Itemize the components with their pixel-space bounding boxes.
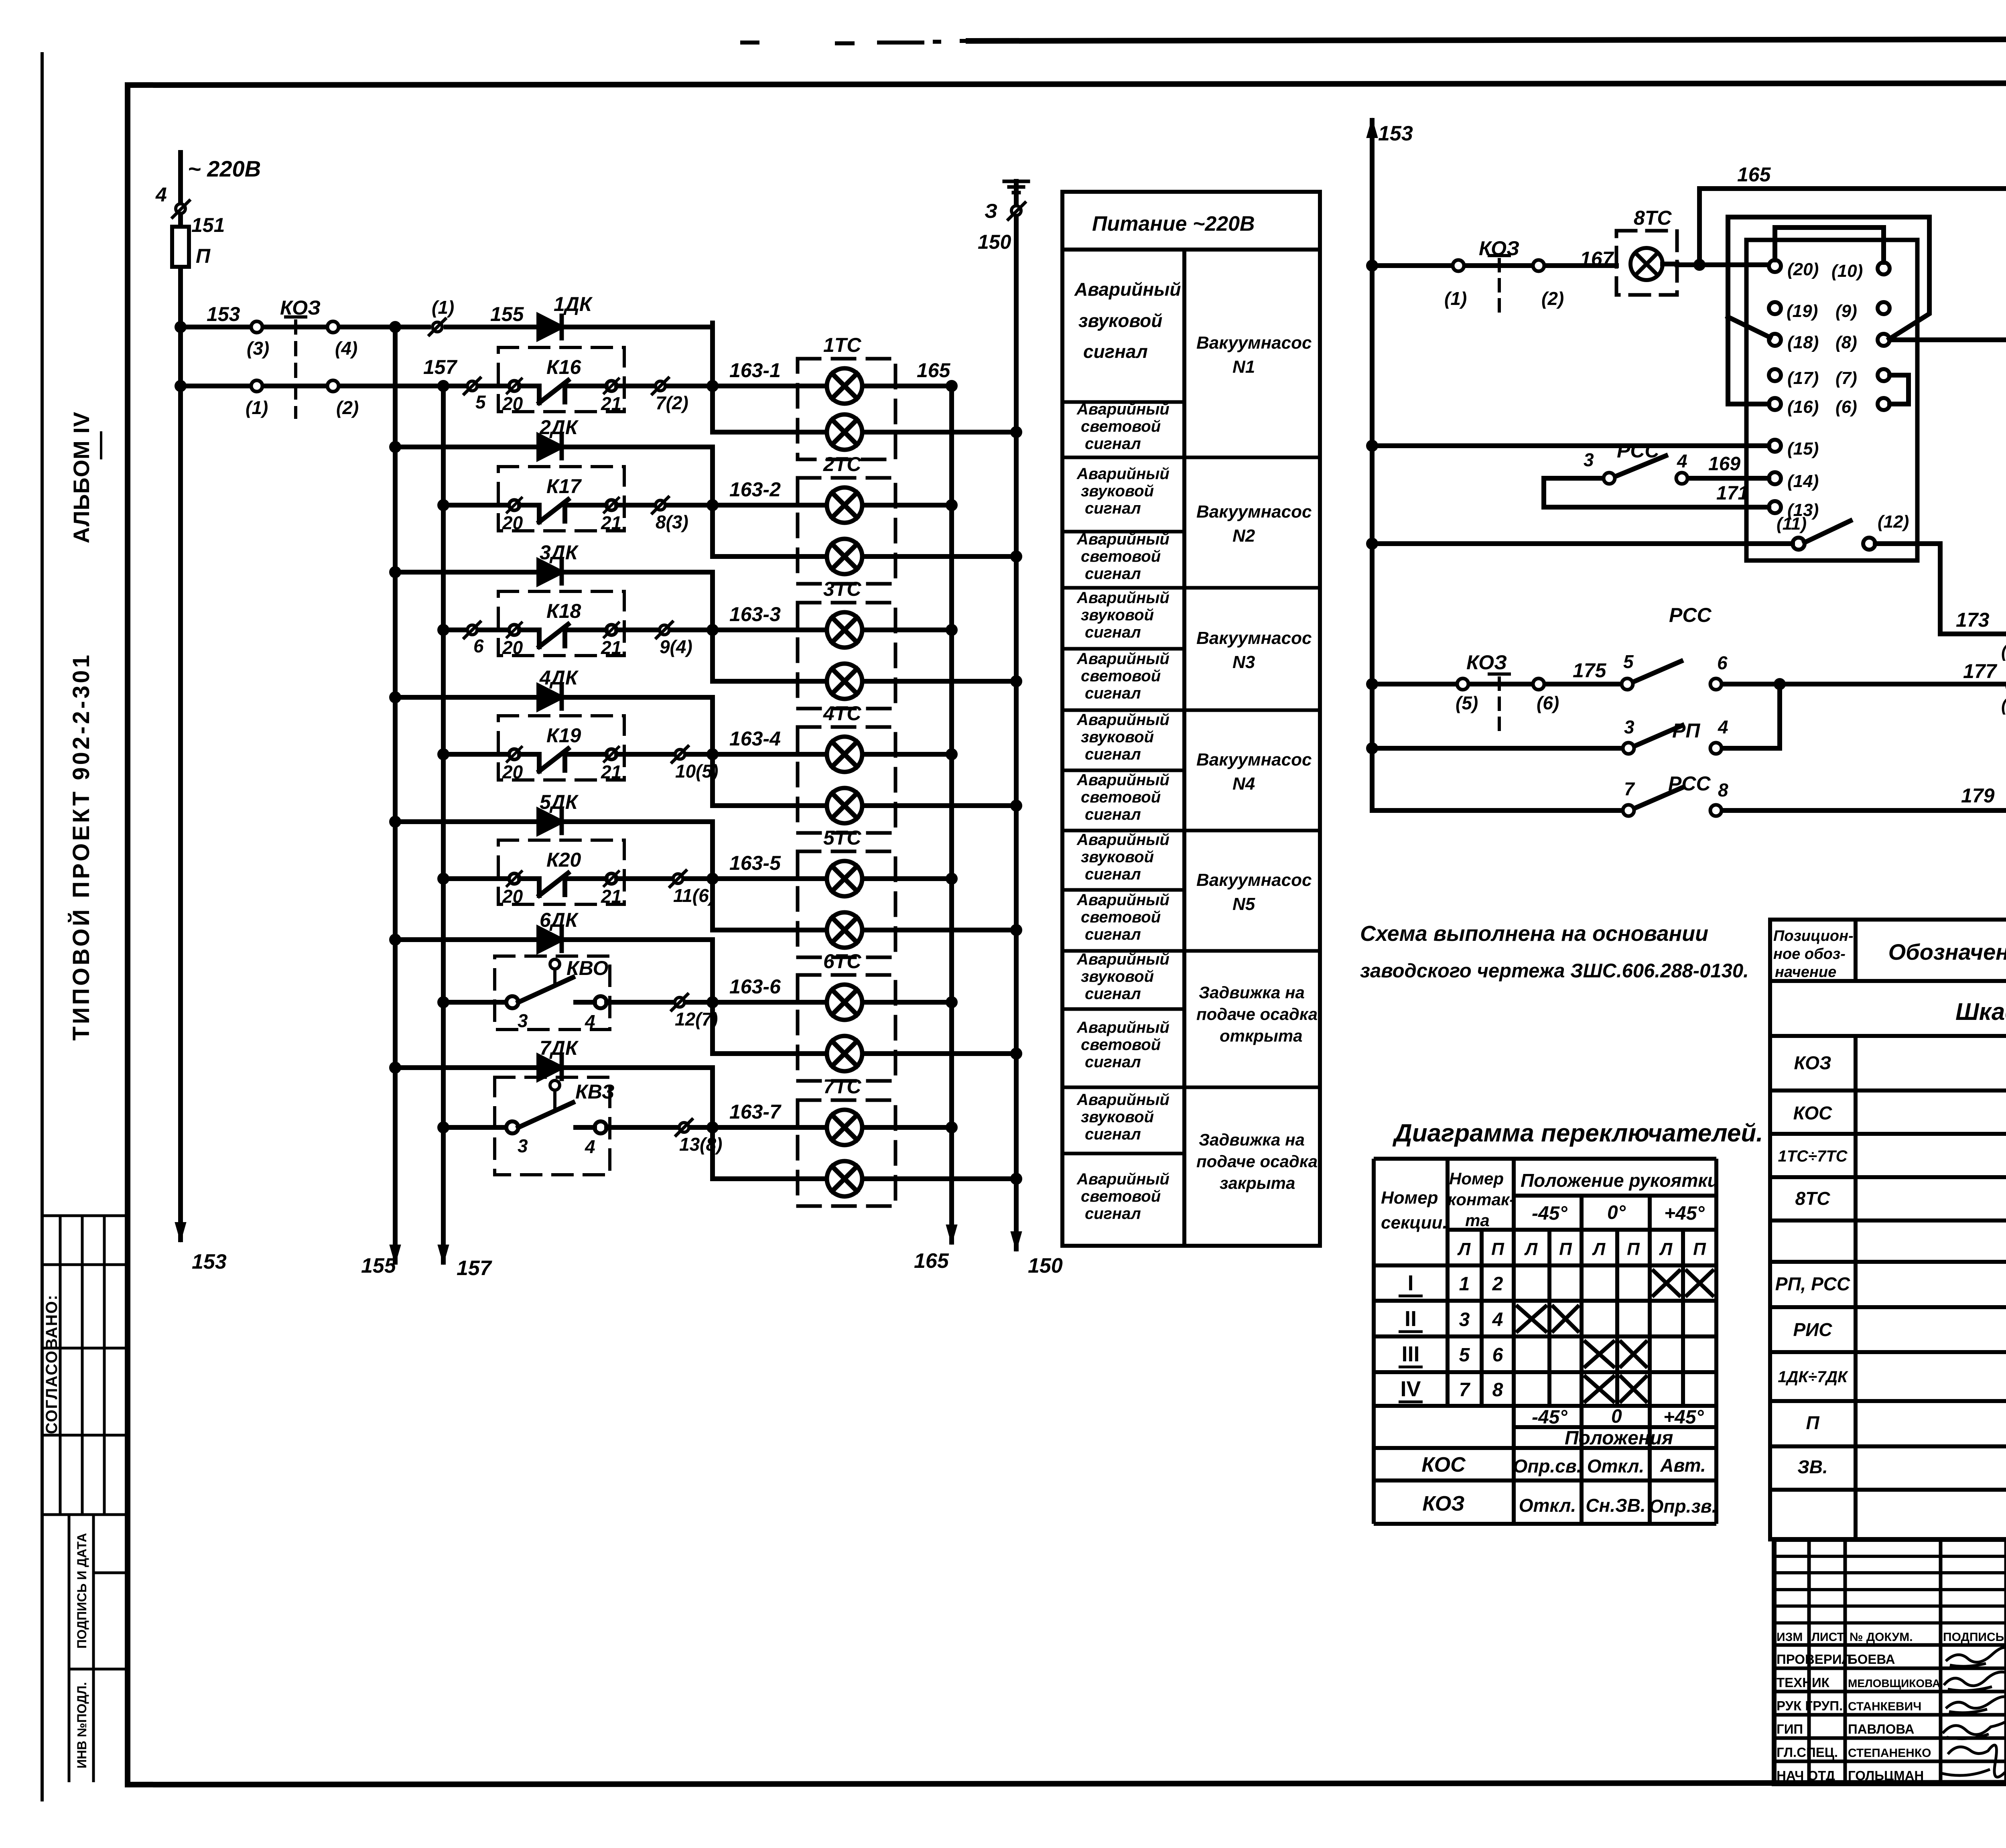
svg-text:N1: N1 — [1232, 357, 1255, 377]
diode 3ДК — [539, 561, 561, 583]
svg-text:РИС: РИС — [1793, 1319, 1833, 1340]
svg-text:(16): (16) — [1787, 397, 1819, 417]
svg-text:Номер: Номер — [1449, 1169, 1504, 1188]
svg-text:звуковой: звуковой — [1081, 728, 1154, 746]
pin (20) — [1769, 260, 1781, 272]
svg-text:163-3: 163-3 — [729, 603, 781, 625]
node on bus 157 — [440, 1124, 447, 1131]
contact circle (3) — [251, 321, 262, 333]
svg-text:Аварийный: Аварийный — [1076, 1019, 1169, 1036]
contact circle 4 of РП — [1710, 743, 1722, 754]
svg-text:153: 153 — [192, 1250, 227, 1273]
svg-text:12(7): 12(7) — [675, 1009, 718, 1030]
branch 7: diode 7ДК, contact КВЗ, lamp 7ТС — [392, 1056, 1020, 1206]
svg-text:звуковой: звуковой — [1081, 1108, 1154, 1126]
svg-text:(20): (20) — [1787, 260, 1819, 279]
svg-text:Аварийный: Аварийный — [1076, 465, 1169, 483]
node — [948, 626, 955, 634]
relay contact box К20 (dashed) — [498, 840, 624, 904]
node on bus 157 — [440, 999, 447, 1006]
contact circle (4) — [327, 321, 339, 333]
plug contact marker 8(3) — [656, 500, 665, 510]
svg-text:173: 173 — [1956, 609, 1990, 631]
contact X on rail 150 — [1011, 206, 1021, 215]
svg-text:6ТС: 6ТС — [823, 950, 861, 973]
switch blade КВЗ — [518, 1103, 595, 1127]
relay contact box К19 (dashed) — [498, 716, 624, 780]
svg-text:3ТС: 3ТС — [823, 578, 861, 600]
svg-text:165: 165 — [914, 1249, 949, 1273]
diode 6ДК — [539, 928, 561, 951]
svg-text:КОЗ: КОЗ — [1466, 651, 1507, 674]
contact circle 3 — [506, 1121, 518, 1133]
svg-text:Задвижка на: Задвижка на — [1199, 983, 1305, 1002]
wire: riser joining diode row to lamp rows — [710, 822, 715, 930]
svg-text:звуковой: звуковой — [1081, 482, 1154, 500]
lamp 8ТС — [1630, 248, 1663, 280]
svg-text:ИНВ №ПОДЛ.: ИНВ №ПОДЛ. — [75, 1682, 89, 1768]
contact circle 7 — [1623, 805, 1634, 816]
wire: diode row 5ДК — [395, 819, 713, 824]
contact circle (2) — [1533, 260, 1544, 271]
svg-text:П: П — [1491, 1239, 1504, 1259]
svg-text:157: 157 — [457, 1257, 492, 1280]
svg-text:Аварийный: Аварийный — [1076, 400, 1169, 418]
svg-text:5: 5 — [475, 392, 486, 412]
plug contact marker 10(5) — [675, 749, 685, 759]
svg-text:(12): (12) — [1878, 512, 1909, 532]
node on bus 155 — [392, 936, 399, 943]
svg-text:ИЗМ: ИЗМ — [1777, 1631, 1803, 1644]
svg-text:Номер: Номер — [1381, 1188, 1438, 1208]
svg-text:(17): (17) — [1787, 368, 1819, 388]
lamp 3ТС top — [827, 612, 862, 648]
svg-text:2: 2 — [1492, 1273, 1503, 1295]
svg-text:световой: световой — [1081, 418, 1161, 435]
svg-text:10(5): 10(5) — [675, 761, 718, 782]
svg-text:III: III — [1401, 1342, 1419, 1366]
branch 5: diode 5ДК, contact К20, lamp 5ТС — [392, 810, 1020, 957]
X marks row I (+45) — [1652, 1269, 1681, 1297]
svg-text:Вакуумнасос: Вакуумнасос — [1196, 628, 1312, 648]
svg-text:4: 4 — [585, 1136, 595, 1157]
wire: diagonal pin18 — [1728, 317, 1770, 337]
wire: rail 150 (vertical x=2551) — [1014, 181, 1019, 1249]
diode 7ДК — [539, 1056, 561, 1079]
svg-text:155: 155 — [490, 303, 524, 325]
svg-text:сигнал: сигнал — [1085, 684, 1141, 702]
svg-text:(1): (1) — [1444, 288, 1467, 309]
wire: contact row — [443, 628, 506, 632]
svg-text:8: 8 — [1718, 780, 1728, 800]
svg-text:сигнал: сигнал — [1085, 1205, 1141, 1223]
svg-text:Откл.: Откл. — [1587, 1456, 1645, 1476]
wire: riser joining diode row to lamp rows — [710, 940, 715, 1054]
pin (14) — [1769, 472, 1781, 484]
svg-text:N5: N5 — [1232, 894, 1255, 914]
fuse П (151) — [172, 227, 189, 267]
plug contact marker 9(4) — [660, 625, 669, 635]
svg-text:(3): (3) — [247, 338, 269, 359]
contact blade 11-12 — [1805, 521, 1850, 542]
wire: lamp bottom row — [713, 1176, 1016, 1181]
contact circle 5 — [1622, 678, 1633, 690]
node — [1368, 540, 1376, 547]
svg-text:Положение рукоятки: Положение рукоятки — [1521, 1170, 1719, 1191]
svg-text:163-7: 163-7 — [729, 1101, 782, 1123]
contact circle (1) — [1453, 260, 1464, 271]
branch 3: diode 3ДК, contact К18, lamp 3ТС — [392, 561, 1020, 709]
svg-text:КОЗ: КОЗ — [1422, 1492, 1464, 1515]
node — [709, 1124, 716, 1131]
svg-text:КОЗ: КОЗ — [1479, 237, 1519, 260]
svg-text:(14): (14) — [1787, 471, 1819, 491]
node — [948, 382, 955, 390]
svg-text:(6): (6) — [1835, 397, 1857, 417]
pin (11) — [1793, 538, 1805, 550]
svg-text:ТЕХНИК: ТЕХНИК — [1777, 1675, 1830, 1690]
svg-text:КОС: КОС — [1793, 1103, 1832, 1123]
svg-text:К19: К19 — [546, 724, 581, 747]
svg-text:~ 220В: ~ 220В — [188, 156, 261, 181]
node on bus 155 — [392, 1064, 399, 1071]
svg-text:I: I — [1407, 1271, 1413, 1295]
svg-text:Задвижка на: Задвижка на — [1199, 1130, 1305, 1149]
svg-text:157: 157 — [423, 356, 458, 378]
contact circle 20 — [509, 873, 520, 884]
lamp 5ТС bottom — [827, 912, 862, 948]
contact circle 4 — [595, 1121, 607, 1133]
signal lamp box 4ТС (dashed) — [798, 727, 895, 833]
contact circle 21 — [606, 873, 617, 884]
svg-text:Откл.: Откл. — [1519, 1495, 1576, 1516]
svg-text:4: 4 — [1492, 1309, 1503, 1330]
pin (17) — [1769, 369, 1781, 381]
wire: lamp bottom row — [713, 430, 1016, 435]
svg-text:(19): (19) — [1787, 301, 1818, 321]
svg-text:Л: Л — [1592, 1239, 1606, 1259]
pin (8) — [1878, 334, 1890, 346]
wire: lamp top row to rail 165 — [862, 1000, 952, 1005]
wire to plug contact — [617, 503, 827, 508]
svg-text:3ДК: 3ДК — [540, 541, 579, 564]
svg-text:Л: Л — [1524, 1239, 1538, 1259]
svg-text:(1): (1) — [246, 397, 268, 418]
node on bus 157 — [440, 875, 447, 882]
node — [1013, 926, 1020, 934]
svg-text:179: 179 — [1961, 784, 1995, 807]
svg-text:20: 20 — [502, 637, 523, 658]
underline of IV — [100, 431, 102, 459]
plug contact marker 11(6) — [673, 874, 683, 883]
lamp 4ТС bottom — [827, 788, 862, 823]
svg-text:сигнал: сигнал — [1085, 745, 1141, 763]
svg-text:8: 8 — [1492, 1379, 1503, 1401]
svg-text:21: 21 — [601, 512, 621, 533]
contact circle 20 — [509, 749, 520, 760]
svg-text:4: 4 — [1718, 717, 1728, 737]
ground symbol (net 150) — [1004, 181, 1028, 193]
svg-text:(15): (15) — [1787, 439, 1819, 459]
node — [948, 875, 955, 882]
contact circle (6) — [1533, 678, 1544, 690]
svg-text:20: 20 — [502, 886, 523, 907]
wire: riser joining diode row to lamp rows — [710, 1068, 715, 1179]
svg-text:КВЗ: КВЗ — [575, 1080, 615, 1103]
svg-text:4: 4 — [1677, 451, 1687, 471]
svg-text:Опр.св.: Опр.св. — [1513, 1456, 1582, 1476]
X marks row IV (0) — [1584, 1375, 1615, 1403]
node on bus 157 — [440, 626, 447, 634]
svg-text:Аварийный: Аварийный — [1076, 589, 1169, 607]
contact circle (2) — [327, 380, 339, 392]
limit switch box КВО (dashed) — [495, 956, 610, 1030]
svg-text:153: 153 — [1378, 122, 1413, 145]
svg-text:начение: начение — [1775, 964, 1836, 981]
node — [1013, 1175, 1020, 1182]
lamp 3ТС bottom — [827, 664, 862, 699]
svg-text:Позицион-: Позицион- — [1773, 928, 1854, 944]
wire: supply bus 153 (vertical, x=450) — [178, 152, 183, 1240]
svg-text:ПАВЛОВА: ПАВЛОВА — [1848, 1722, 1914, 1736]
arrow rail 150 bottom — [1011, 1232, 1021, 1249]
svg-text:Опр.зв.: Опр.зв. — [1649, 1496, 1717, 1517]
wire: diode row 2ДК — [395, 445, 713, 449]
svg-text:закрыта: закрыта — [1220, 1174, 1295, 1192]
svg-text:сигнал: сигнал — [1085, 623, 1141, 641]
svg-text:Аварийный: Аварийный — [1076, 711, 1169, 729]
svg-text:6: 6 — [473, 636, 484, 656]
wire to plug contact — [617, 752, 827, 757]
svg-text:Вакуумнасос: Вакуумнасос — [1196, 502, 1312, 522]
switch blade КВО — [518, 977, 595, 1002]
node on bus 155 — [392, 694, 399, 701]
branch 4: diode 4ДК, contact К19, lamp 4ТС — [392, 686, 1020, 833]
wire: lamp top row to rail 165 — [862, 503, 952, 508]
svg-text:П: П — [1693, 1239, 1706, 1259]
svg-text:СТЕПАНЕНКО: СТЕПАНЕНКО — [1848, 1746, 1931, 1760]
node — [1013, 1050, 1020, 1057]
node — [709, 875, 716, 882]
svg-text:7ДК: 7ДК — [540, 1037, 579, 1059]
svg-text:163-1: 163-1 — [729, 359, 781, 382]
wire: pin8 output to rail 150 — [1890, 337, 2006, 342]
svg-text:175: 175 — [1573, 659, 1607, 682]
svg-text:Вакуумнасос: Вакуумнасос — [1196, 870, 1312, 890]
svg-text:П: П — [1559, 1239, 1572, 1259]
svg-text:КОС: КОС — [1421, 1453, 1466, 1476]
wire: lamp top row to rail 165 — [862, 628, 952, 632]
svg-text:3: 3 — [518, 1135, 528, 1156]
contact circle 4 — [595, 996, 607, 1008]
contact circle 20 — [509, 625, 520, 635]
pin (10) — [1878, 262, 1890, 274]
node — [709, 382, 716, 390]
wire: lamp bottom row — [713, 928, 1016, 932]
lamp 5ТС top — [827, 861, 862, 896]
contact blade К17 — [520, 500, 606, 522]
svg-text:6: 6 — [1492, 1344, 1503, 1366]
svg-text:Аварийный: Аварийный — [1076, 831, 1169, 849]
svg-text:П: П — [1806, 1412, 1819, 1433]
switch КОЗ dashed link — [1489, 672, 1509, 676]
svg-text:8ТС: 8ТС — [1634, 207, 1672, 229]
wire: row КОЗ 5-6 net 175/177 — [1372, 661, 2006, 684]
svg-text:155: 155 — [361, 1254, 396, 1277]
svg-text:3: 3 — [518, 1010, 528, 1031]
branch 2: diode 2ДК, contact К17, lamp 2ТС — [392, 436, 1020, 584]
wire: pin12 riser to РП coil row — [1875, 544, 2006, 634]
svg-text:21: 21 — [601, 637, 621, 658]
arrow bus 157 bottom — [439, 1245, 448, 1262]
svg-text:163-4: 163-4 — [729, 727, 781, 750]
svg-text:(9): (9) — [1835, 301, 1857, 321]
svg-text:Обозначение: Обозначение — [1888, 939, 2006, 965]
wire: row 157 (to КОЗ contact 1-2) — [181, 384, 467, 388]
lamp box 8ТС (dashed) — [1616, 231, 1677, 295]
svg-text:4: 4 — [155, 183, 167, 206]
svg-text:(5): (5) — [1456, 692, 1478, 713]
wire: contact row — [443, 1125, 506, 1130]
wire: rail 153 right (x=3420) — [1370, 120, 1375, 810]
lamp 6ТС top — [827, 985, 862, 1020]
svg-text:ЛИСТ: ЛИСТ — [1811, 1631, 1844, 1644]
arrow bus 155 bottom — [390, 1245, 400, 1262]
svg-text:(6): (6) — [1537, 692, 1559, 713]
wire to plug contact — [617, 876, 827, 881]
node — [1368, 680, 1376, 688]
wire to plug contact — [617, 384, 827, 388]
diode 5ДК — [539, 810, 561, 833]
svg-text:8ТС: 8ТС — [1795, 1188, 1831, 1209]
svg-text:Вакуумнасос: Вакуумнасос — [1196, 333, 1312, 353]
svg-text:(18): (18) — [1787, 333, 1819, 352]
svg-text:167: 167 — [1580, 248, 1614, 270]
node — [709, 502, 716, 509]
diode 1ДК — [539, 316, 561, 338]
node on bus 155 — [392, 818, 399, 825]
wire: lamp 8ТС to pin 20 — [1663, 264, 1769, 265]
svg-text:13(8): 13(8) — [679, 1134, 722, 1155]
contact X at top of bus — [176, 204, 185, 213]
pin (6) — [1878, 398, 1890, 410]
X marks row II (-45) — [1516, 1305, 1547, 1332]
contact circle 21 — [606, 500, 617, 510]
wire: row РП contact 3-4 — [1372, 684, 1780, 748]
svg-text:Аварийный: Аварийный — [1076, 650, 1169, 668]
svg-text:3: 3 — [1584, 449, 1594, 470]
top sheet trim line (partly broken dashes at left) — [742, 41, 971, 43]
pin (19) — [1769, 302, 1781, 314]
svg-text:секции.: секции. — [1381, 1213, 1448, 1233]
svg-text:N3: N3 — [1232, 652, 1255, 672]
svg-text:-45°: -45° — [1532, 1407, 1567, 1428]
svg-text:сигнал: сигнал — [1085, 1053, 1141, 1071]
svg-text:РСС: РСС — [1617, 439, 1659, 462]
table Питание ~220В — [1062, 192, 1320, 1246]
wire: row to lamp 8ТС — [1372, 263, 1616, 268]
svg-text:(4): (4) — [335, 338, 357, 359]
wire: contact row — [443, 1000, 506, 1005]
svg-text:сигнал: сигнал — [1085, 500, 1141, 517]
wire: loop pin16 top to pin8 — [1728, 217, 1929, 404]
svg-text:-45°: -45° — [1532, 1203, 1567, 1224]
svg-text:К16: К16 — [546, 356, 582, 378]
components table Шкаф управления — [1770, 920, 2006, 1539]
svg-text:IV: IV — [1400, 1377, 1421, 1401]
svg-text:сигнал: сигнал — [1085, 565, 1141, 583]
head circle КВЗ — [550, 1080, 560, 1090]
contact circle 3 of РП — [1623, 743, 1634, 754]
lamp 1ТС top — [827, 368, 862, 404]
node — [1013, 678, 1020, 685]
svg-text:(2): (2) — [1541, 288, 1564, 309]
svg-text:165: 165 — [1737, 163, 1771, 186]
svg-text:НАЧ ОТД: НАЧ ОТД — [1777, 1768, 1835, 1783]
svg-text:+45°: +45° — [1663, 1407, 1704, 1428]
svg-text:световой: световой — [1081, 667, 1161, 685]
svg-text:№ ДОКУМ.: № ДОКУМ. — [1850, 1631, 1913, 1644]
node — [948, 502, 955, 509]
svg-text:АЛЬБОМ IV: АЛЬБОМ IV — [69, 412, 94, 544]
svg-text:Аварийный: Аварийный — [1076, 1170, 1169, 1188]
contact circle 3 — [1604, 473, 1615, 484]
lamp 1ТС bottom — [827, 414, 862, 450]
signal lamp box 1ТС (dashed) — [798, 359, 895, 459]
svg-text:7(2): 7(2) — [656, 392, 688, 413]
svg-text:открыта: открыта — [1220, 1026, 1303, 1045]
plug contact marker 7(2) — [656, 381, 665, 391]
title block — [1774, 1539, 2006, 1784]
wire: row РСС contact 7-8 net 179 — [1372, 788, 2006, 810]
pin (18) — [1769, 334, 1781, 346]
wire: bus 157 (vertical x=1105) — [441, 386, 446, 1262]
contact circle (1) — [251, 380, 262, 392]
svg-text:2ТС: 2ТС — [823, 453, 861, 475]
svg-text:Аварийный: Аварийный — [1076, 530, 1169, 548]
wire: riser joining diode row to lamp rows — [710, 323, 715, 432]
wire: loop pin20 to pin10 — [1775, 227, 1884, 262]
node — [948, 999, 955, 1006]
svg-text:БОЕВА: БОЕВА — [1848, 1652, 1895, 1667]
svg-text:П: П — [1627, 1239, 1640, 1259]
svg-text:N2: N2 — [1232, 526, 1255, 546]
frame bottom — [128, 1782, 2006, 1785]
svg-text:ТИПОВОЙ ПРОЕКТ 902-2-301: ТИПОВОЙ ПРОЕКТ 902-2-301 — [68, 652, 94, 1041]
svg-text:4: 4 — [585, 1011, 595, 1032]
node — [1696, 261, 1703, 268]
pin (7) — [1878, 369, 1890, 381]
branch 6: diode 6ДК, contact КВО, lamp 6ТС — [392, 928, 1020, 1081]
svg-text:3: 3 — [1459, 1309, 1470, 1330]
contact circle 4 — [1676, 473, 1687, 484]
left margin approval table — [42, 1216, 128, 1782]
wire: lamp top row to rail 165 — [862, 1125, 952, 1130]
svg-text:световой: световой — [1081, 548, 1161, 565]
node on bus 155 — [392, 569, 399, 576]
svg-text:2ДК: 2ДК — [539, 416, 579, 439]
node — [1368, 745, 1376, 752]
svg-text:Вакуумнасос: Вакуумнасос — [1196, 750, 1312, 770]
svg-text:11(6): 11(6) — [673, 885, 715, 906]
left sheet edge line — [41, 52, 44, 1801]
svg-text:(7): (7) — [1835, 368, 1857, 388]
svg-text:ное обоз-: ное обоз- — [1773, 946, 1846, 963]
svg-text:РСС: РСС — [1668, 772, 1711, 795]
svg-text:20: 20 — [502, 512, 523, 533]
svg-text:177: 177 — [1963, 660, 1998, 682]
svg-text:(11): (11) — [1777, 514, 1807, 534]
